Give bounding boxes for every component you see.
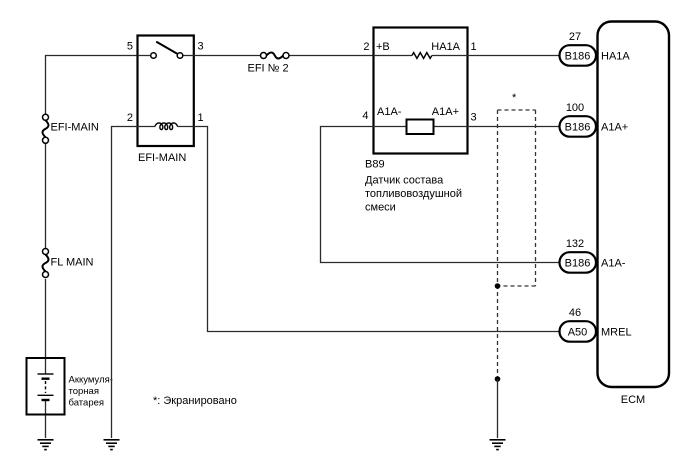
svg-text:3: 3 xyxy=(198,41,204,53)
svg-text:торная: торная xyxy=(69,386,100,397)
svg-text:27: 27 xyxy=(569,31,581,43)
svg-text:B186: B186 xyxy=(565,51,591,63)
wire relay pin 2 to ground xyxy=(112,127,138,439)
relay coil xyxy=(138,126,194,128)
svg-text:EFI-MAIN: EFI-MAIN xyxy=(138,152,186,164)
relay switch contact wires xyxy=(138,55,194,57)
sensor B89 box xyxy=(374,28,468,154)
svg-text:*: * xyxy=(512,92,517,104)
svg-text:топливовоздушной: топливовоздушной xyxy=(365,188,462,200)
wire B89 pin 1 to ECM HA1A xyxy=(468,55,560,57)
B89 A1A wire xyxy=(374,126,468,128)
connector oval B186 pin 27 xyxy=(560,45,597,65)
svg-text:смеси: смеси xyxy=(365,202,396,214)
shield junction dot upper xyxy=(495,283,501,289)
connector oval B186 pin 100 xyxy=(560,116,597,137)
relay switch contacts xyxy=(151,53,157,59)
svg-text:B186: B186 xyxy=(565,122,591,134)
svg-text:3: 3 xyxy=(471,112,477,124)
svg-text:2: 2 xyxy=(127,112,133,124)
wire battery to relay pin 5 (top horizontal) xyxy=(46,56,138,115)
battery Аккумуляторная батарея xyxy=(27,358,65,415)
wire relay pin 1 to ECM MREL xyxy=(194,127,560,332)
shield junction dot lower xyxy=(495,376,501,382)
svg-text:B89: B89 xyxy=(365,159,385,171)
ground below relay pin 2 xyxy=(104,440,120,450)
svg-text:*: Экранировано: *: Экранировано xyxy=(153,395,237,407)
relay EFI-MAIN xyxy=(138,36,194,147)
svg-text:Аккумуля-: Аккумуля- xyxy=(69,375,113,386)
fuse EFI-MAIN xyxy=(43,114,49,143)
wire shield to ground xyxy=(497,379,499,438)
svg-text:EFI-MAIN: EFI-MAIN xyxy=(51,122,99,134)
svg-text:2: 2 xyxy=(363,41,369,53)
svg-text:HA1A: HA1A xyxy=(601,51,630,63)
connector oval B186 pin 132 xyxy=(560,252,597,273)
svg-text:1: 1 xyxy=(471,41,477,53)
resistor HA1A xyxy=(412,53,432,59)
svg-text:A1A-: A1A- xyxy=(377,106,402,118)
svg-text:1: 1 xyxy=(198,112,204,124)
wire left vertical battery feed xyxy=(45,144,47,439)
ground below shield xyxy=(490,440,506,450)
svg-text:B186: B186 xyxy=(565,258,591,270)
svg-text:ECM: ECM xyxy=(621,394,645,406)
fuse EFI № 2 xyxy=(261,53,290,59)
svg-text:A1A+: A1A+ xyxy=(432,106,459,118)
svg-text:A50: A50 xyxy=(568,327,588,339)
ground below battery xyxy=(38,440,54,450)
svg-text:4: 4 xyxy=(362,110,368,122)
wire B89 pin 3 to ECM A1A+ xyxy=(468,126,560,128)
svg-text:5: 5 xyxy=(127,41,133,53)
wire relay pin 3 to B89 pin 2 xyxy=(194,55,374,57)
svg-text:EFI № 2: EFI № 2 xyxy=(248,63,289,75)
relay switch blade xyxy=(156,42,177,54)
svg-text:46: 46 xyxy=(569,307,581,319)
svg-text:100: 100 xyxy=(566,102,584,114)
svg-text:HA1A: HA1A xyxy=(431,41,460,53)
svg-text:Датчик состава: Датчик состава xyxy=(365,175,444,187)
ECM box xyxy=(598,22,670,388)
connector oval A50 pin 46 xyxy=(560,321,597,342)
fuse FL MAIN xyxy=(43,249,49,278)
svg-text:FL MAIN: FL MAIN xyxy=(51,257,94,269)
svg-text:MREL: MREL xyxy=(601,327,632,339)
svg-text:A1A-: A1A- xyxy=(601,258,626,270)
svg-text:A1A+: A1A+ xyxy=(601,122,628,134)
sensing element box xyxy=(407,120,434,135)
B89 +B/HA1A wire xyxy=(374,55,468,57)
wire B89 pin 4 to ECM A1A- xyxy=(321,127,560,263)
svg-text:батарея: батарея xyxy=(69,398,105,409)
svg-text:+B: +B xyxy=(376,41,390,53)
shield dashed outline xyxy=(498,110,536,379)
svg-text:132: 132 xyxy=(566,238,584,250)
